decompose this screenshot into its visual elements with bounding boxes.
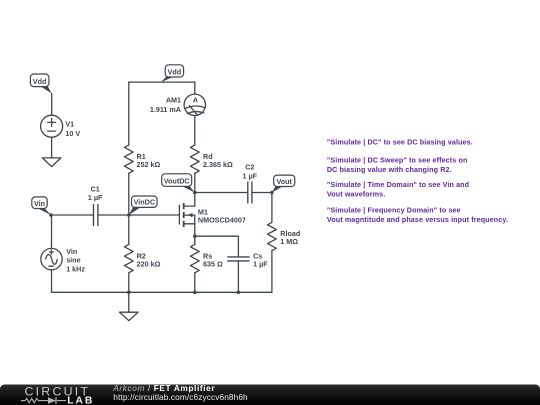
node dot R2 to rail [127, 291, 131, 295]
wire top rail [129, 81, 195, 83]
svg-text:sine: sine [66, 256, 80, 265]
annotation note 4 [327, 206, 508, 225]
wire source node to Cs branch [195, 236, 239, 257]
wire Rs bottom lead [194, 273, 196, 293]
wire VoutDC to C2 [195, 192, 248, 194]
logo resistor-diode wire [21, 397, 66, 404]
svg-text:A: A [193, 95, 198, 104]
node Vin flag [32, 197, 51, 215]
logo CIRCUIT text [25, 384, 91, 398]
label C2 value [243, 163, 258, 181]
wire Rload top lead [271, 193, 273, 223]
svg-text:"Simulate | DC Sweep" to see e: "Simulate | DC Sweep" to see effects on [327, 156, 468, 165]
wire R1 top lead [128, 82, 130, 145]
footer url text [113, 392, 248, 402]
wire Vdd flag to V1 plus [51, 94, 53, 116]
sine source Vin [41, 248, 62, 269]
wire bottom rail [52, 291, 272, 293]
capacitor C1 [94, 204, 98, 226]
svg-text:1 µF: 1 µF [253, 259, 268, 268]
svg-text:2.365 kΩ: 2.365 kΩ [203, 160, 233, 169]
resistor R1 [124, 145, 133, 173]
label V1 value [65, 119, 80, 138]
ground (bottom) [120, 312, 139, 320]
svg-text:AM1: AM1 [166, 96, 181, 105]
svg-text:V1: V1 [65, 119, 74, 128]
svg-text:635 Ω: 635 Ω [203, 259, 223, 268]
ground (below V1) [42, 158, 61, 167]
label AM1 value [150, 96, 181, 114]
annotation note 2 [327, 156, 468, 174]
node dot at VinDC junction [127, 213, 131, 217]
wire Cs bottom lead [237, 261, 239, 292]
label Vin source value [66, 247, 85, 273]
capacitor Cs [227, 257, 249, 261]
svg-text:Vdd: Vdd [168, 68, 182, 77]
svg-text:1.911 mA: 1.911 mA [150, 105, 181, 114]
svg-text:Vout magntitude and phase vers: Vout magntitude and phase versus input f… [327, 215, 508, 224]
transistor M1 [179, 193, 194, 237]
node Vout flag [272, 175, 295, 192]
wire ammeter to Rd [194, 116, 196, 146]
wire ground stub [128, 292, 130, 312]
wire R2 bottom lead [128, 273, 130, 293]
wire Vin node to Vin source [51, 215, 53, 248]
wire gate rail right (C1 to M1 gate) [98, 214, 179, 216]
svg-text:NMOSCD4007: NMOSCD4007 [198, 216, 246, 225]
wire R2 top lead [128, 215, 130, 244]
label M1 value [198, 207, 246, 224]
resistor Rs [190, 244, 199, 272]
svg-text:Vdd: Vdd [33, 77, 47, 86]
footer title text [112, 383, 215, 393]
svg-text:"Simulate | DC" to see DC bias: "Simulate | DC" to see DC biasing values… [327, 138, 473, 147]
label R2 value [137, 252, 161, 269]
ammeter AM1 [184, 94, 205, 115]
wire C2 to Vout node [252, 192, 272, 194]
svg-text:VinDC: VinDC [134, 198, 155, 207]
svg-text:Vout: Vout [276, 177, 292, 186]
svg-text:Vin: Vin [66, 247, 77, 256]
node Vdd flag (top center) [161, 65, 184, 82]
wire Rs top lead [194, 236, 196, 244]
label C1 value [88, 184, 103, 202]
svg-text:10 V: 10 V [65, 129, 80, 138]
resistor R2 [124, 244, 133, 272]
voltage source V1 [41, 115, 63, 137]
footer bar [0, 385, 540, 405]
resistor Rload [268, 222, 277, 250]
svg-text:1 µF: 1 µF [243, 171, 258, 180]
svg-text:VoutDC: VoutDC [164, 176, 190, 185]
logo LAB text [67, 396, 94, 405]
svg-text:"Simulate | Time Domain" to se: "Simulate | Time Domain" to see Vin and [327, 180, 469, 189]
node VinDC flag [129, 196, 157, 215]
svg-text:"Simulate | Frequency Domain": "Simulate | Frequency Domain" to see [327, 206, 461, 215]
svg-text:1 µF: 1 µF [88, 193, 103, 202]
svg-text:DC biasing value with changing: DC biasing value with changing R2. [327, 165, 452, 174]
node dot at VoutDC junction [193, 191, 197, 195]
svg-text:http://circuitlab.com/c6zyccv6: http://circuitlab.com/c6zyccv6n8h6h [113, 392, 248, 402]
wire Rload bottom lead [271, 251, 273, 293]
svg-text:1 MΩ: 1 MΩ [280, 237, 298, 246]
resistor Rd [190, 145, 199, 173]
node dot at Vout junction [270, 191, 274, 195]
label R1 value [137, 152, 161, 169]
wire ammeter top lead [194, 82, 196, 94]
wire Rd bottom lead [194, 173, 196, 192]
node Vdd flag (left, at V1) [30, 74, 51, 94]
capacitor C2 [248, 182, 252, 204]
annotation note 1 [327, 138, 473, 147]
node dot at source node [193, 234, 197, 238]
annotation note 3 [327, 180, 469, 198]
node VoutDC flag [162, 174, 195, 193]
node dot Rs to rail [193, 291, 197, 295]
wire gate rail left (Vin to C1) [51, 214, 94, 216]
svg-text:LAB: LAB [67, 396, 94, 405]
wire Vin source to bottom rail [51, 270, 53, 293]
svg-text:Vin: Vin [34, 199, 45, 208]
svg-text:Vout waveforms.: Vout waveforms. [327, 189, 385, 198]
label Rs value [203, 252, 223, 269]
wire R1 bottom lead [128, 173, 130, 215]
wire V1 minus to ground [51, 137, 53, 158]
node dot Cs to rail [237, 291, 241, 295]
label Rload value [280, 229, 300, 246]
svg-text:252 kΩ: 252 kΩ [137, 160, 161, 169]
node dot at Vin junction [49, 213, 53, 217]
label Rd value [203, 152, 233, 169]
label Cs value [253, 251, 268, 268]
svg-text:1 kHz: 1 kHz [66, 264, 85, 273]
svg-text:220 kΩ: 220 kΩ [137, 259, 161, 268]
